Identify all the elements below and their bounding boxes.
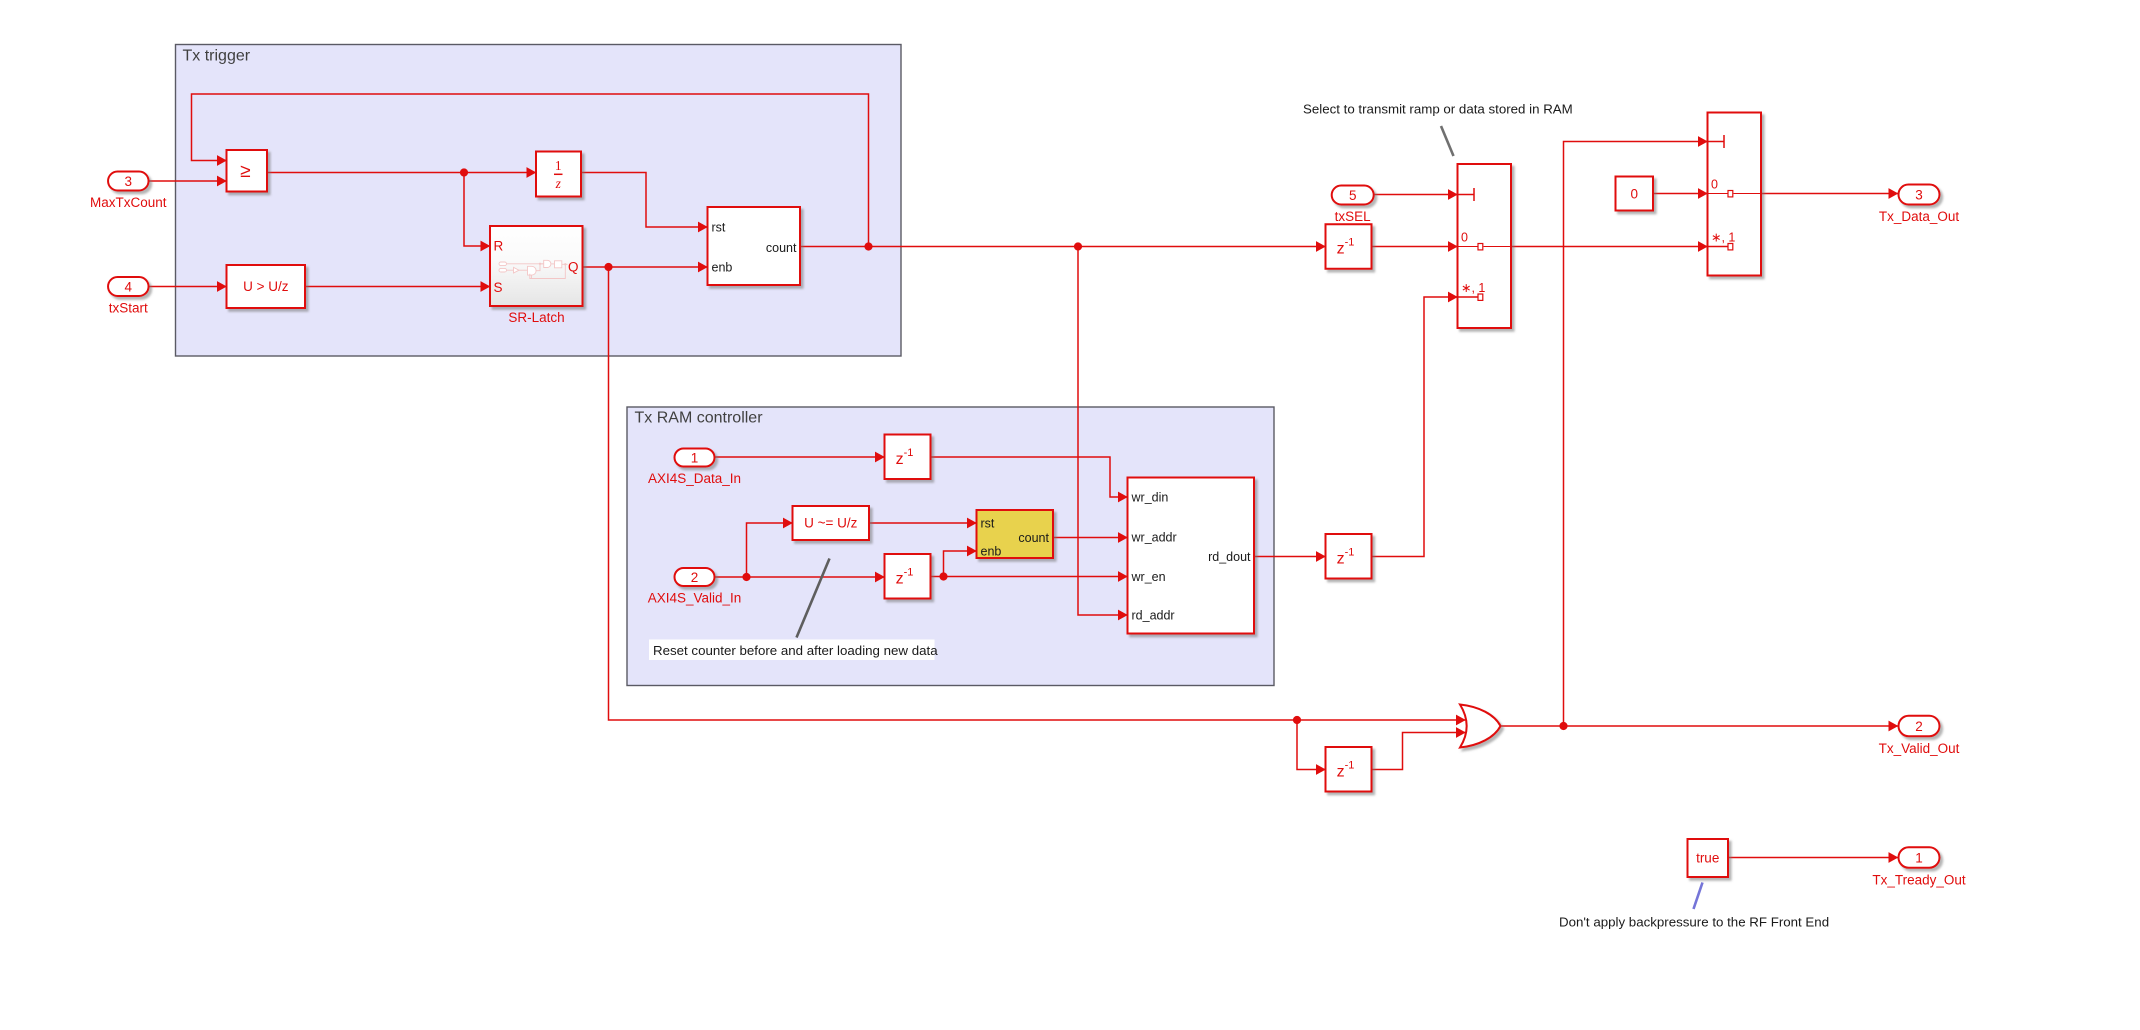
svg-text:rd_dout: rd_dout <box>1208 550 1251 564</box>
svg-text:Select to transmit ramp or dat: Select to transmit ramp or data stored i… <box>1303 102 1573 117</box>
svg-text:Tx trigger: Tx trigger <box>183 48 251 65</box>
svg-text:SR-Latch: SR-Latch <box>508 310 564 325</box>
svg-text:S: S <box>494 280 503 295</box>
svg-text:Tx_Valid_Out: Tx_Valid_Out <box>1879 741 1960 756</box>
svg-text:rd_addr: rd_addr <box>1132 609 1175 623</box>
svg-text:count: count <box>766 241 797 255</box>
svg-text:0: 0 <box>1461 231 1468 245</box>
svg-text:wr_en: wr_en <box>1131 570 1166 584</box>
svg-text:txSEL: txSEL <box>1335 209 1372 224</box>
svg-text:∗, 1: ∗, 1 <box>1461 281 1485 295</box>
svg-text:1: 1 <box>555 158 562 173</box>
svg-text:AXI4S_Valid_In: AXI4S_Valid_In <box>648 591 742 606</box>
svg-text:R: R <box>494 239 504 254</box>
svg-text:Tx_Data_Out: Tx_Data_Out <box>1879 209 1960 224</box>
svg-text:Tx RAM controller: Tx RAM controller <box>635 410 764 427</box>
svg-text:txStart: txStart <box>109 301 148 316</box>
svg-text:enb: enb <box>981 545 1002 559</box>
svg-text:3: 3 <box>1915 187 1923 202</box>
svg-text:0: 0 <box>1711 178 1718 192</box>
svg-text:rst: rst <box>712 221 726 235</box>
svg-text:1: 1 <box>691 450 699 465</box>
svg-text:rst: rst <box>981 517 995 531</box>
svg-text:0: 0 <box>1630 186 1638 201</box>
svg-text:≥: ≥ <box>240 161 250 182</box>
svg-text:wr_din: wr_din <box>1131 491 1169 505</box>
svg-text:4: 4 <box>125 279 133 294</box>
svg-text:z: z <box>555 176 562 191</box>
svg-text:2: 2 <box>691 570 699 585</box>
svg-text:Don't apply backpressure to th: Don't apply backpressure to the RF Front… <box>1559 915 1829 930</box>
svg-text:wr_addr: wr_addr <box>1131 531 1177 545</box>
svg-text:1: 1 <box>1915 850 1923 865</box>
svg-text:5: 5 <box>1349 188 1357 203</box>
svg-text:∗, 1: ∗, 1 <box>1711 231 1735 245</box>
svg-text:enb: enb <box>712 261 733 275</box>
svg-text:3: 3 <box>125 174 133 189</box>
svg-text:U > U/z: U > U/z <box>243 279 289 294</box>
svg-text:true: true <box>1696 850 1719 865</box>
svg-text:U ~= U/z: U ~= U/z <box>804 516 858 531</box>
svg-text:Tx_Tready_Out: Tx_Tready_Out <box>1872 872 1966 887</box>
svg-text:MaxTxCount: MaxTxCount <box>90 195 167 210</box>
svg-text:count: count <box>1018 531 1049 545</box>
svg-text:Q: Q <box>568 260 579 275</box>
svg-text:Reset counter before and after: Reset counter before and after loading n… <box>653 643 938 658</box>
svg-text:AXI4S_Data_In: AXI4S_Data_In <box>648 471 741 486</box>
svg-text:2: 2 <box>1915 719 1923 734</box>
